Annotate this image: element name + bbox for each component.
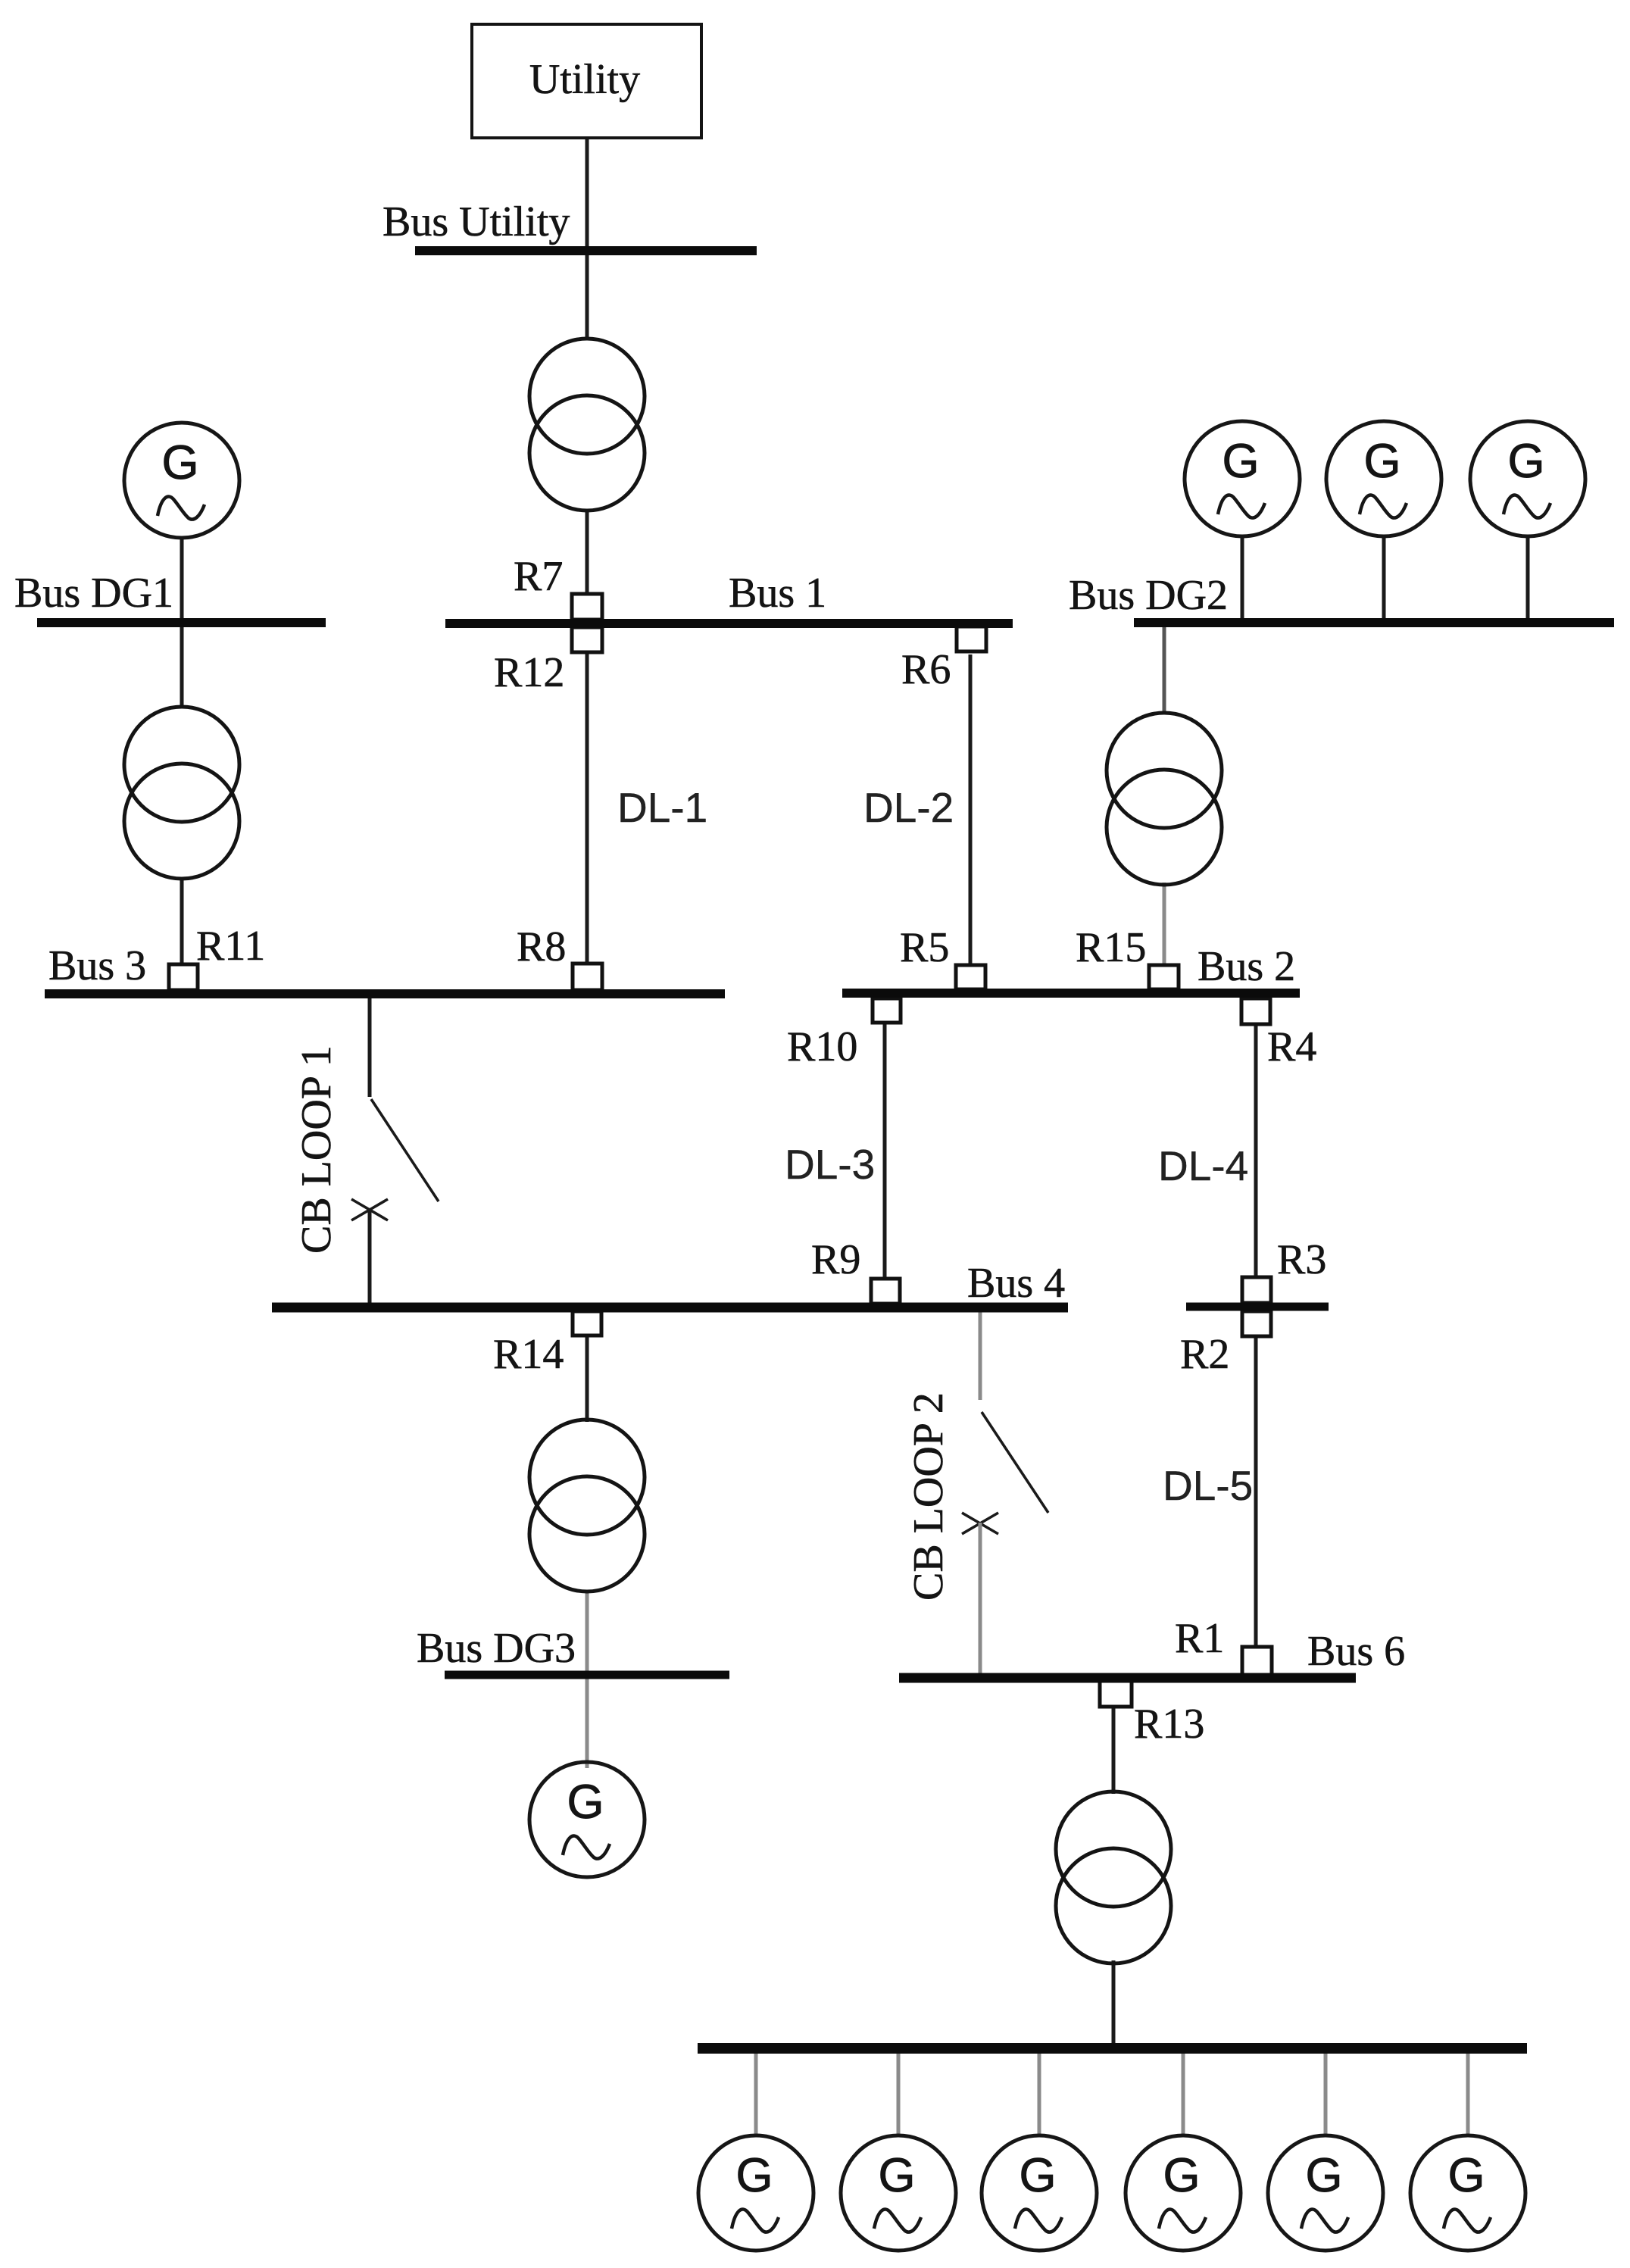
svg-text:DL-4: DL-4	[1158, 1142, 1248, 1189]
svg-text:Bus 1: Bus 1	[729, 570, 826, 617]
svg-text:R7: R7	[514, 553, 563, 600]
svg-text:Bus 4: Bus 4	[967, 1260, 1065, 1307]
svg-text:Bus 6: Bus 6	[1307, 1628, 1405, 1675]
svg-text:Utility: Utility	[529, 56, 640, 103]
svg-text:R10: R10	[787, 1023, 857, 1070]
svg-text:DL-2: DL-2	[863, 784, 954, 831]
svg-text:R9: R9	[811, 1236, 860, 1283]
svg-text:DL-1: DL-1	[617, 784, 707, 831]
svg-text:R5: R5	[900, 924, 949, 971]
svg-text:R15: R15	[1076, 924, 1146, 971]
svg-text:Bus 2: Bus 2	[1198, 943, 1295, 990]
svg-text:R12: R12	[494, 649, 564, 696]
svg-text:Bus DG1: Bus DG1	[14, 570, 173, 617]
svg-text:R13: R13	[1134, 1701, 1204, 1748]
svg-text:CB LOOP 2: CB LOOP 2	[905, 1392, 952, 1601]
svg-text:R6: R6	[901, 646, 951, 693]
svg-text:CB LOOP 1: CB LOOP 1	[293, 1045, 340, 1254]
svg-text:R14: R14	[493, 1331, 564, 1378]
svg-text:R2: R2	[1180, 1331, 1229, 1378]
svg-text:R8: R8	[517, 923, 566, 970]
svg-text:Bus DG2: Bus DG2	[1069, 572, 1228, 619]
svg-text:R3: R3	[1277, 1236, 1326, 1283]
svg-text:R4: R4	[1267, 1023, 1316, 1070]
svg-text:R1: R1	[1175, 1615, 1224, 1662]
svg-text:R11: R11	[196, 923, 265, 970]
svg-text:DL-3: DL-3	[785, 1141, 875, 1188]
svg-text:Bus 3: Bus 3	[48, 942, 146, 989]
svg-text:Bus Utility: Bus Utility	[383, 198, 570, 245]
svg-text:Bus DG3: Bus DG3	[417, 1625, 576, 1672]
svg-text:DL-5: DL-5	[1163, 1462, 1253, 1509]
